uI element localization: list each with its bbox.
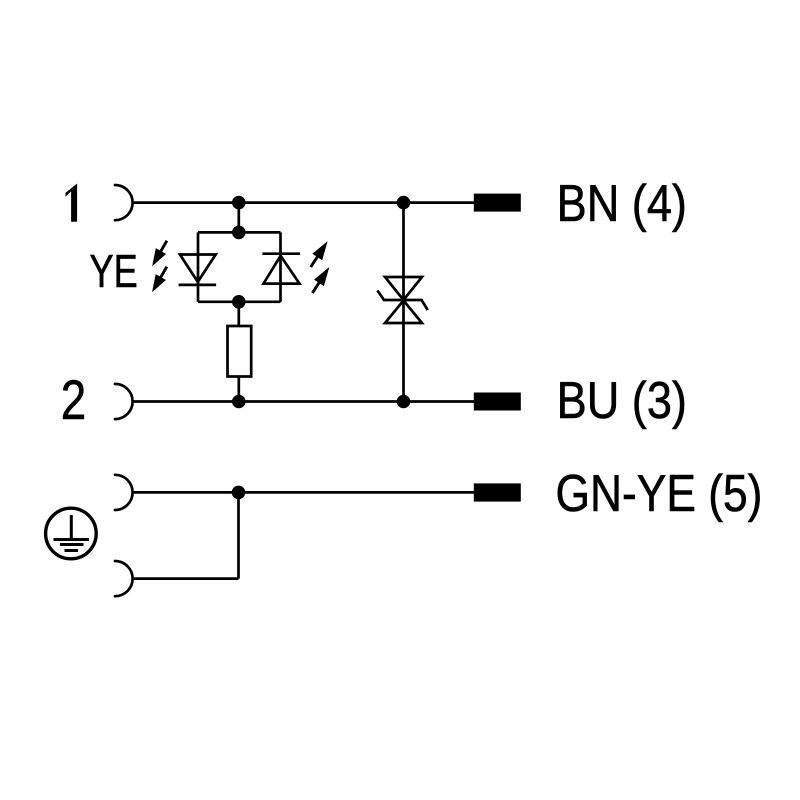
svg-text:BN (4): BN (4): [557, 175, 687, 233]
svg-text:2: 2: [61, 369, 86, 431]
svg-text:GN-YE (5): GN-YE (5): [556, 465, 763, 523]
svg-text:YE: YE: [90, 244, 138, 297]
svg-text:BU (3): BU (3): [557, 372, 687, 430]
